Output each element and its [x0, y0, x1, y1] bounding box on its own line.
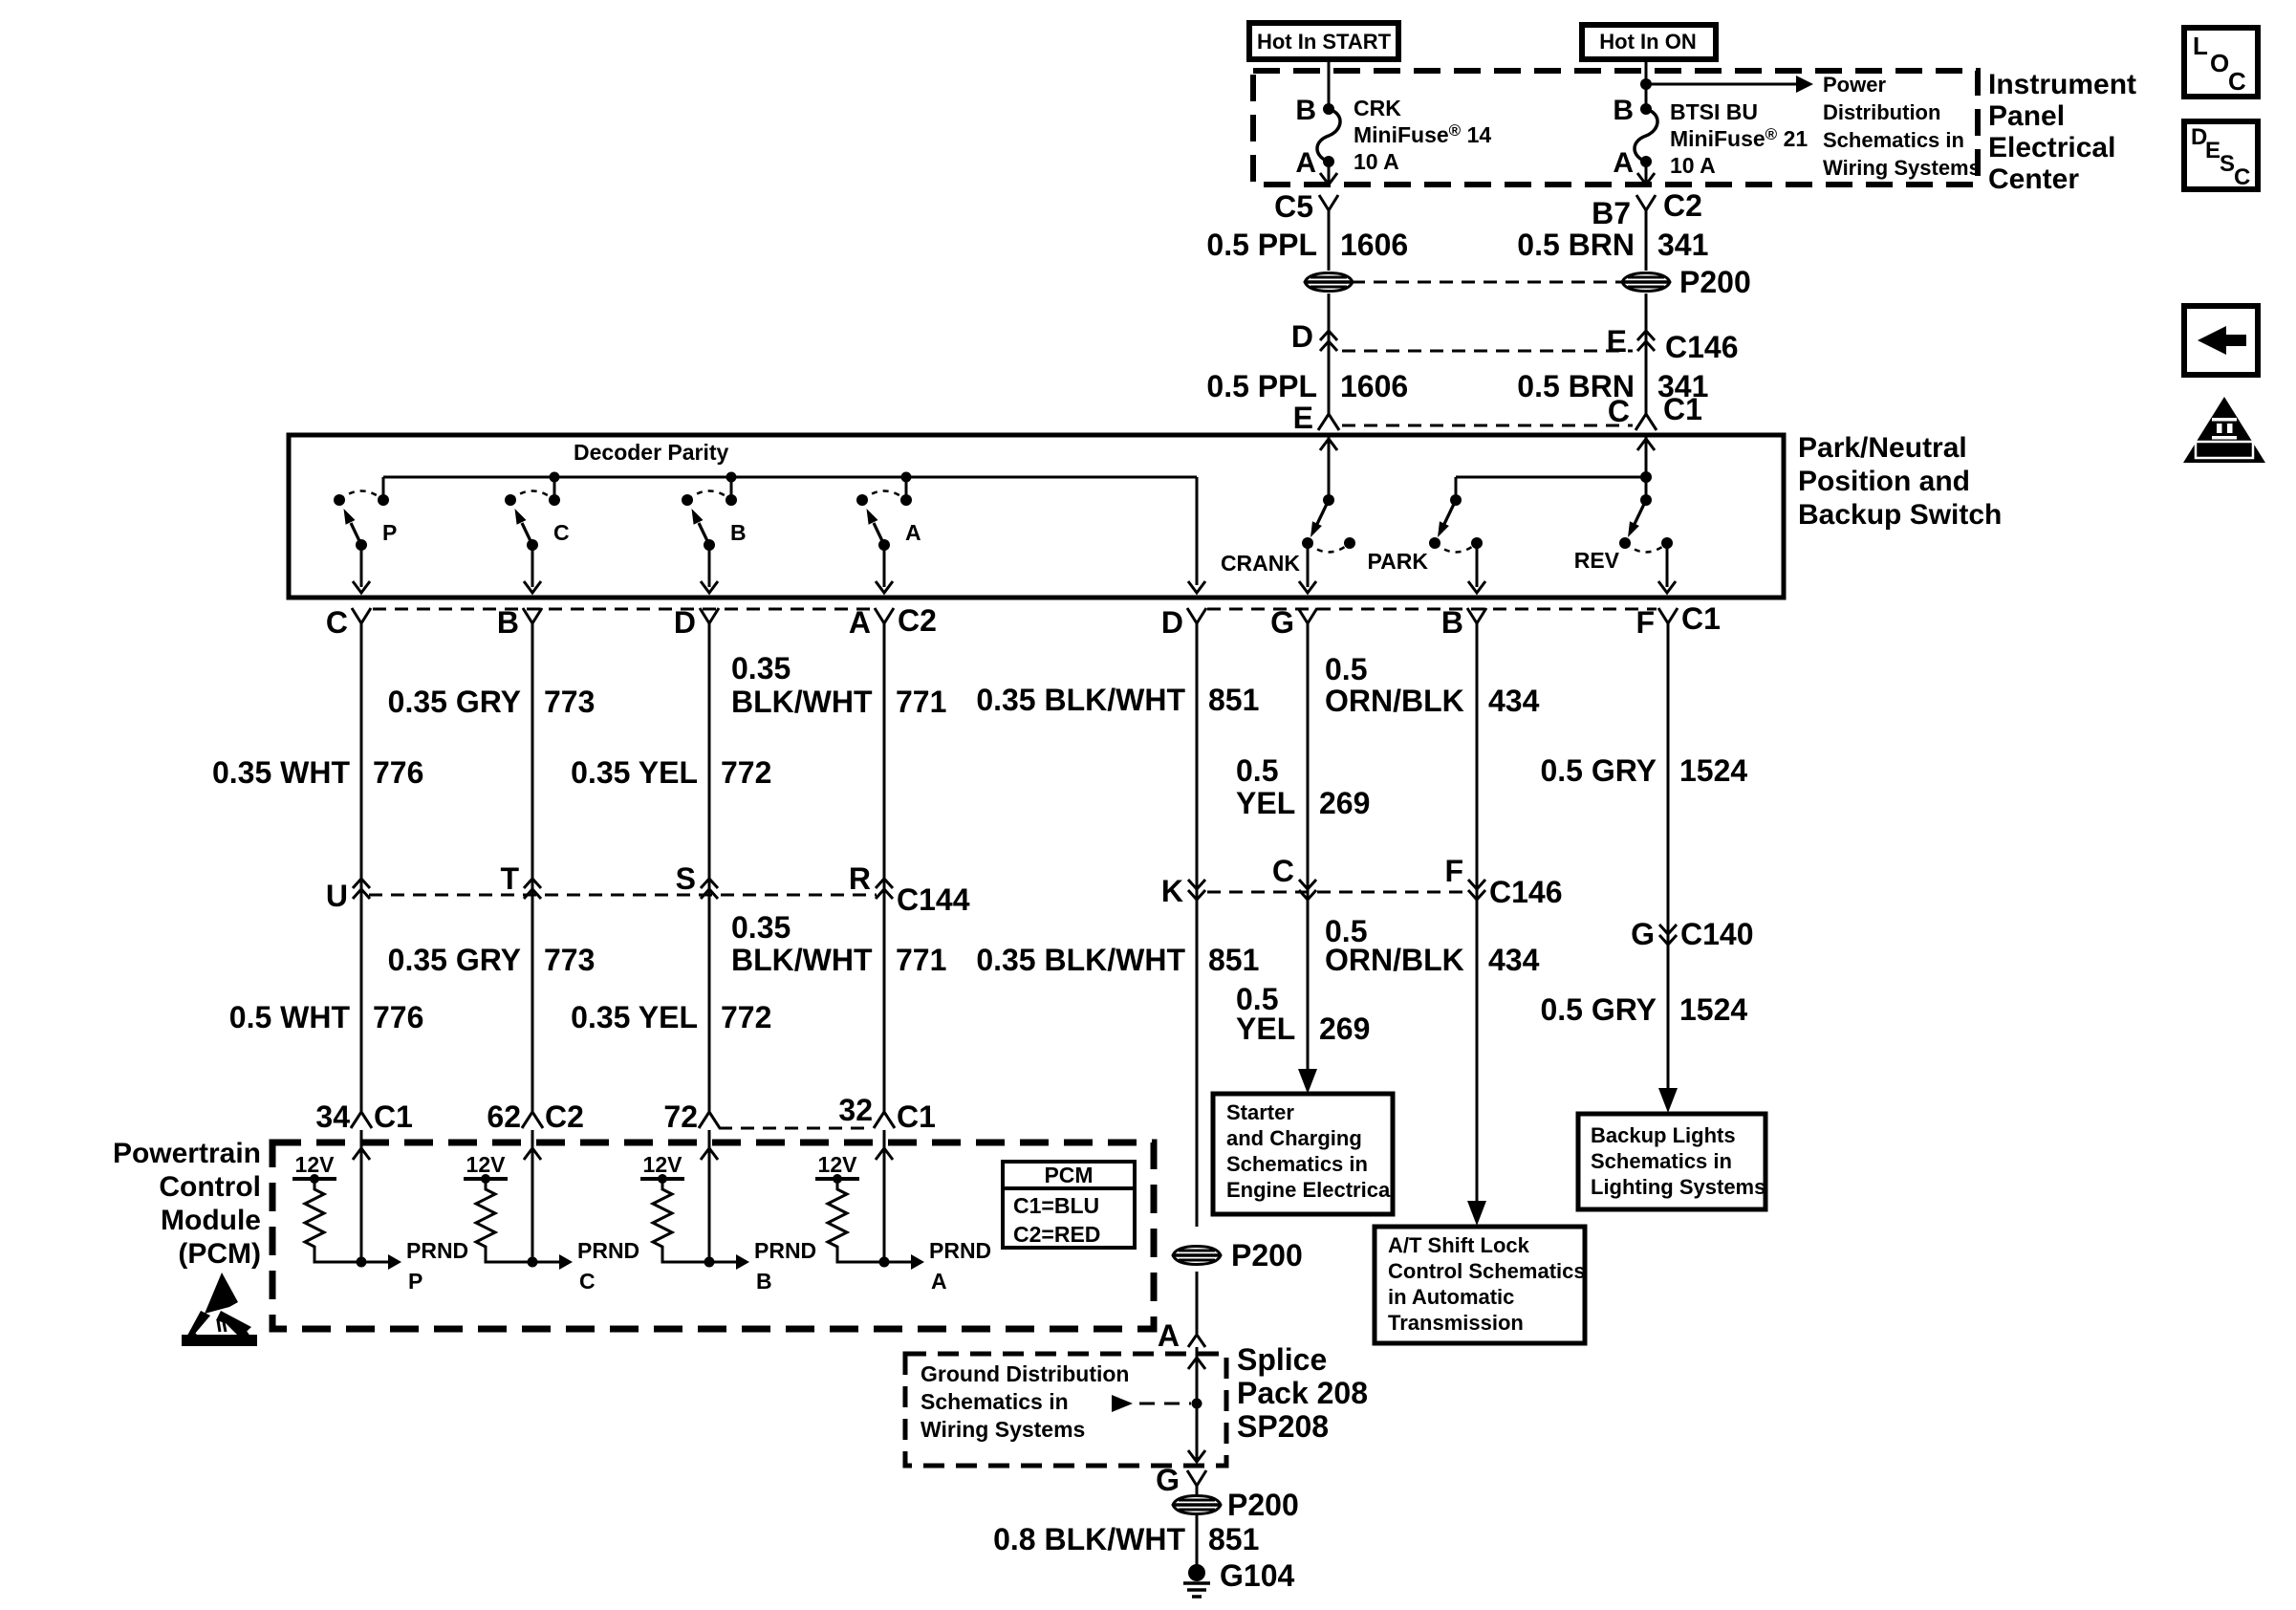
svg-text:1606: 1606 [1340, 228, 1408, 262]
svg-text:D: D [1161, 605, 1183, 640]
svg-text:Powertrain: Powertrain [113, 1138, 261, 1169]
svg-text:Engine Electrical: Engine Electrical [1226, 1178, 1396, 1202]
svg-text:YEL: YEL [1236, 786, 1295, 820]
svg-text:Control Schematics: Control Schematics [1388, 1259, 1586, 1283]
svg-text:PRND: PRND [406, 1238, 468, 1263]
svg-text:ORN/BLK: ORN/BLK [1325, 684, 1464, 718]
svg-text:MiniFuse® 14: MiniFuse® 14 [1354, 121, 1491, 147]
svg-text:C: C [2234, 164, 2250, 190]
svg-text:341: 341 [1657, 369, 1708, 403]
svg-text:F: F [1444, 854, 1463, 888]
svg-text:CRK: CRK [1354, 96, 1401, 120]
svg-text:B: B [497, 605, 519, 640]
svg-text:K: K [1161, 874, 1183, 908]
svg-text:Ground Distribution: Ground Distribution [921, 1361, 1129, 1386]
svg-text:0.5 GRY: 0.5 GRY [1540, 992, 1657, 1027]
svg-text:0.5: 0.5 [1236, 753, 1278, 788]
svg-text:Hot In START: Hot In START [1257, 30, 1392, 54]
svg-text:REV: REV [1574, 548, 1620, 573]
svg-text:Schematics in: Schematics in [1823, 128, 1964, 152]
svg-text:C2: C2 [898, 603, 937, 638]
svg-text:B: B [1441, 605, 1463, 640]
svg-text:C: C [1272, 854, 1294, 888]
svg-text:Decoder Parity: Decoder Parity [574, 440, 729, 465]
svg-text:32: 32 [838, 1093, 873, 1127]
svg-text:434: 434 [1488, 684, 1540, 718]
svg-text:771: 771 [896, 943, 946, 977]
svg-text:OBD II: OBD II [2205, 444, 2243, 458]
svg-text:Center: Center [1988, 163, 2079, 195]
svg-text:C: C [326, 605, 348, 640]
svg-text:and Charging: and Charging [1226, 1126, 1362, 1150]
svg-text:MiniFuse® 21: MiniFuse® 21 [1670, 125, 1808, 151]
svg-text:in Automatic: in Automatic [1388, 1285, 1514, 1309]
svg-text:Schematics in: Schematics in [921, 1389, 1069, 1414]
svg-text:851: 851 [1208, 1522, 1259, 1556]
svg-text:0.5 WHT: 0.5 WHT [229, 1000, 351, 1034]
svg-text:773: 773 [544, 943, 595, 977]
svg-text:771: 771 [896, 685, 946, 719]
svg-text:Park/Neutral: Park/Neutral [1798, 432, 1967, 464]
svg-text:12V: 12V [818, 1152, 858, 1177]
svg-text:G: G [1631, 917, 1655, 951]
svg-text:B7: B7 [1592, 196, 1631, 230]
svg-text:C: C [553, 520, 570, 545]
svg-text:0.5 GRY: 0.5 GRY [1540, 753, 1657, 788]
svg-text:P200: P200 [1679, 265, 1751, 299]
svg-text:0.35 YEL: 0.35 YEL [571, 755, 698, 790]
svg-text:A: A [1295, 147, 1316, 179]
svg-text:CRANK: CRANK [1221, 551, 1300, 576]
svg-text:E: E [1293, 401, 1313, 435]
svg-text:851: 851 [1208, 683, 1259, 717]
svg-text:10 A: 10 A [1670, 153, 1716, 178]
svg-text:Instrument: Instrument [1988, 69, 2136, 100]
svg-text:G: G [1270, 605, 1294, 640]
svg-text:Backup Lights: Backup Lights [1591, 1123, 1736, 1147]
svg-text:Power: Power [1823, 73, 1886, 97]
svg-text:B: B [1613, 95, 1634, 126]
svg-text:D: D [674, 605, 696, 640]
svg-text:Schematics in: Schematics in [1591, 1149, 1732, 1173]
svg-text:72: 72 [663, 1099, 698, 1134]
svg-text:BLK/WHT: BLK/WHT [731, 943, 873, 977]
svg-text:0.35 BLK/WHT: 0.35 BLK/WHT [976, 943, 1185, 977]
svg-text:1524: 1524 [1679, 753, 1747, 788]
svg-text:Wiring Systems: Wiring Systems [921, 1417, 1085, 1442]
svg-text:T: T [500, 861, 519, 896]
svg-text:Module: Module [161, 1205, 261, 1236]
svg-text:C2: C2 [1663, 188, 1702, 223]
svg-text:SP208: SP208 [1237, 1409, 1329, 1444]
svg-text:Position and: Position and [1798, 466, 1970, 497]
svg-text:A/T Shift Lock: A/T Shift Lock [1388, 1233, 1530, 1257]
svg-text:772: 772 [721, 755, 771, 790]
svg-text:C1: C1 [1681, 601, 1721, 636]
svg-text:0.35 BLK/WHT: 0.35 BLK/WHT [976, 683, 1185, 717]
svg-text:Control: Control [159, 1171, 261, 1203]
svg-text:773: 773 [544, 685, 595, 719]
svg-text:U: U [326, 879, 348, 913]
svg-text:Panel: Panel [1988, 100, 2065, 132]
svg-text:P200: P200 [1227, 1488, 1299, 1522]
svg-text:(PCM): (PCM) [178, 1238, 261, 1270]
svg-text:Starter: Starter [1226, 1100, 1294, 1124]
svg-text:C5: C5 [1274, 189, 1313, 224]
svg-text:A: A [1158, 1318, 1180, 1353]
svg-text:0.8 BLK/WHT: 0.8 BLK/WHT [993, 1522, 1185, 1556]
svg-text:Pack 208: Pack 208 [1237, 1376, 1368, 1410]
svg-text:C2: C2 [545, 1099, 584, 1134]
svg-text:Transmission: Transmission [1388, 1311, 1524, 1335]
svg-text:BTSI BU: BTSI BU [1670, 99, 1758, 124]
svg-text:O: O [2210, 49, 2229, 77]
svg-text:Electrical: Electrical [1988, 132, 2115, 163]
svg-text:851: 851 [1208, 943, 1259, 977]
svg-text:A: A [849, 605, 871, 640]
svg-text:434: 434 [1488, 943, 1540, 977]
svg-text:P200: P200 [1231, 1238, 1303, 1273]
svg-text:P: P [408, 1269, 422, 1294]
svg-text:E: E [2205, 138, 2220, 163]
svg-text:C146: C146 [1665, 330, 1739, 364]
svg-text:0.5: 0.5 [1325, 652, 1367, 686]
svg-text:0.5 BRN: 0.5 BRN [1517, 228, 1635, 262]
svg-text:1606: 1606 [1340, 369, 1408, 403]
svg-text:B: B [756, 1269, 772, 1294]
svg-text:269: 269 [1319, 786, 1370, 820]
svg-text:12V: 12V [643, 1152, 683, 1177]
svg-text:C1: C1 [897, 1099, 936, 1134]
svg-text:Hot In ON: Hot In ON [1599, 30, 1696, 54]
svg-text:C144: C144 [897, 882, 970, 917]
svg-text:269: 269 [1319, 1012, 1370, 1046]
svg-text:C1=BLU: C1=BLU [1013, 1193, 1099, 1218]
svg-text:PCM: PCM [1044, 1163, 1093, 1187]
svg-text:A: A [905, 520, 921, 545]
svg-text:C: C [2228, 67, 2246, 96]
svg-text:S: S [676, 861, 696, 896]
svg-text:0.35 GRY: 0.35 GRY [388, 943, 521, 977]
svg-text:C: C [579, 1269, 596, 1294]
svg-text:PRND: PRND [577, 1238, 639, 1263]
svg-text:Backup Switch: Backup Switch [1798, 499, 2002, 531]
svg-text:62: 62 [487, 1099, 521, 1134]
svg-text:C2=RED: C2=RED [1013, 1222, 1100, 1247]
svg-text:772: 772 [721, 1000, 771, 1034]
svg-text:C140: C140 [1680, 917, 1754, 951]
svg-text:0.35 WHT: 0.35 WHT [212, 755, 350, 790]
svg-text:10 A: 10 A [1354, 149, 1399, 174]
svg-text:341: 341 [1657, 228, 1708, 262]
svg-text:Schematics in: Schematics in [1226, 1152, 1368, 1176]
svg-text:E: E [1607, 324, 1627, 359]
svg-text:12V: 12V [466, 1152, 507, 1177]
svg-text:34: 34 [315, 1099, 350, 1134]
svg-text:YEL: YEL [1236, 1012, 1295, 1046]
svg-text:0.35 GRY: 0.35 GRY [388, 685, 521, 719]
svg-text:1524: 1524 [1679, 992, 1747, 1027]
svg-text:G104: G104 [1220, 1558, 1294, 1593]
svg-text:Wiring Systems: Wiring Systems [1823, 156, 1981, 180]
svg-text:PRND: PRND [754, 1238, 816, 1263]
svg-text:C146: C146 [1489, 875, 1563, 909]
svg-text:A: A [1613, 147, 1634, 179]
svg-text:PARK: PARK [1368, 549, 1429, 574]
svg-text:A: A [931, 1269, 947, 1294]
svg-text:12V: 12V [295, 1152, 336, 1177]
svg-text:B: B [730, 520, 747, 545]
svg-text:ORN/BLK: ORN/BLK [1325, 943, 1464, 977]
svg-text:Splice: Splice [1237, 1342, 1327, 1377]
svg-text:L: L [2193, 32, 2208, 60]
svg-text:C1: C1 [374, 1099, 413, 1134]
svg-text:G: G [1156, 1463, 1180, 1497]
svg-text:0.35 YEL: 0.35 YEL [571, 1000, 698, 1034]
svg-text:S: S [2220, 151, 2235, 177]
svg-text:F: F [1635, 605, 1655, 640]
svg-text:B: B [1295, 95, 1316, 126]
svg-text:BLK/WHT: BLK/WHT [731, 685, 873, 719]
svg-text:R: R [849, 861, 871, 896]
svg-text:776: 776 [373, 755, 423, 790]
svg-text:776: 776 [373, 1000, 423, 1034]
svg-text:PRND: PRND [929, 1238, 991, 1263]
svg-text:Lighting Systems: Lighting Systems [1591, 1175, 1765, 1199]
svg-text:0.5 PPL: 0.5 PPL [1206, 369, 1317, 403]
svg-text:Distribution: Distribution [1823, 100, 1940, 124]
svg-text:D: D [1291, 319, 1313, 354]
svg-text:0.5 BRN: 0.5 BRN [1517, 369, 1635, 403]
svg-text:0.5 PPL: 0.5 PPL [1206, 228, 1317, 262]
svg-text:0.35: 0.35 [731, 910, 791, 945]
svg-text:P: P [382, 520, 397, 545]
svg-text:0.35: 0.35 [731, 651, 791, 685]
